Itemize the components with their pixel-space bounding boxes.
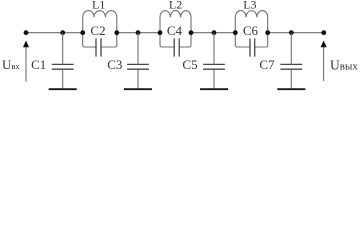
capacitor C1 [52,63,74,65]
svg-text:C4: C4 [167,23,183,38]
inductor L1 [83,11,117,18]
wire [137,33,139,64]
ground [124,88,152,90]
wire [290,33,292,64]
node [233,30,238,35]
capacitor C6 [249,38,251,56]
wire [26,32,83,34]
wire [117,32,160,34]
capacitor C3 [127,63,149,65]
ground [200,88,228,90]
ground [277,88,305,90]
capacitor C4 [173,38,175,56]
svg-text:L3: L3 [243,0,256,12]
node [189,30,194,35]
capacitor C7 [280,63,302,65]
wire [137,70,139,89]
wire [290,70,292,89]
node [80,30,85,35]
wire output lead [323,47,325,81]
capacitor C5 [203,63,225,65]
wire [213,70,215,89]
node [60,30,65,35]
wire tank side [160,17,174,47]
svg-text:L1: L1 [92,0,105,12]
node output [321,30,326,35]
inductor L2 [160,11,191,18]
svg-text:Uвых: Uвых [330,57,358,72]
svg-text:C7: C7 [259,57,275,72]
svg-text:C6: C6 [243,23,259,38]
node [212,30,217,35]
capacitor C2 [95,38,97,56]
wire tank side [179,17,191,47]
svg-text:Uвх: Uвх [2,57,20,72]
wire [213,33,215,64]
node [289,30,294,35]
wire [62,70,64,89]
output arrow [321,41,327,48]
node [158,30,163,35]
svg-text:C1: C1 [31,57,46,72]
node [136,30,141,35]
svg-text:C2: C2 [90,23,105,38]
wire [191,32,235,34]
wire tank side [235,17,250,47]
wire tank side [101,17,117,47]
ground [49,88,77,90]
wire [62,33,64,64]
svg-text:C5: C5 [182,57,197,72]
wire input lead [25,47,27,82]
node input [24,30,29,35]
svg-text:C3: C3 [107,57,122,72]
wire [268,32,324,34]
input arrow [23,41,29,48]
svg-text:L2: L2 [169,0,182,12]
wire tank side [255,17,268,47]
inductor L3 [235,11,267,18]
node [114,30,119,35]
wire tank side [83,17,96,47]
node [265,30,270,35]
